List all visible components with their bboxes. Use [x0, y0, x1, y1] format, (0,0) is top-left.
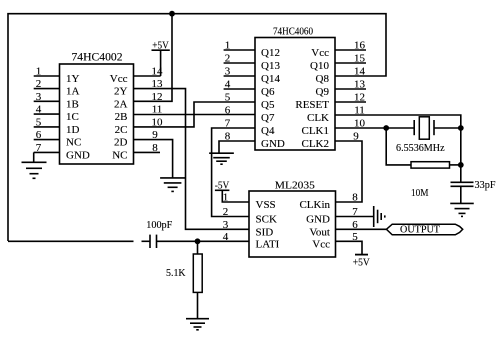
node OUTPUT port flag: [386, 224, 462, 235]
wire GND pin7 U3 to sideways ground: [336, 216, 374, 218]
svg-text:Vcc: Vcc: [312, 238, 330, 250]
svg-text:100pF: 100pF: [146, 219, 172, 231]
wire right vertical to 33pF: [460, 128, 462, 182]
svg-text:Q14: Q14: [261, 73, 280, 85]
wire NC pin8 stub U1: [134, 151, 161, 153]
resistor R1 10M: [411, 162, 450, 168]
svg-text:1A: 1A: [66, 86, 80, 98]
label 5.1K: [166, 267, 186, 279]
IC U3 ML2035 body and pin names: [249, 179, 336, 257]
svg-text:LATI: LATI: [256, 238, 280, 250]
wire CLK2 pin9 down to CLKin pin8: [335, 141, 362, 202]
svg-text:74HC4002: 74HC4002: [72, 50, 123, 64]
svg-text:ML2035: ML2035: [275, 179, 316, 191]
svg-text:3: 3: [225, 66, 231, 78]
svg-text:Q8: Q8: [316, 73, 330, 85]
svg-text:GND: GND: [306, 214, 330, 226]
svg-text:CLK: CLK: [307, 112, 329, 124]
wire 2D pin9 to ground: [134, 140, 173, 178]
svg-text:Vout: Vout: [309, 226, 330, 238]
svg-text:Q5: Q5: [261, 99, 275, 111]
node junction LATI and 5.1K: [195, 238, 201, 244]
svg-text:CLK1: CLK1: [302, 125, 330, 137]
svg-text:NC: NC: [66, 137, 81, 149]
svg-text:SCK: SCK: [256, 214, 277, 226]
wire 10M left leg: [386, 128, 411, 165]
svg-text:5.1K: 5.1K: [166, 267, 186, 279]
wire 2Y pin13 down to SID pin3: [134, 89, 250, 230]
svg-text:33pF: 33pF: [475, 179, 496, 191]
U2 left pin numbers 1-8: [225, 40, 231, 143]
wire 100pF right to LATI pin4: [157, 240, 250, 242]
svg-text:RESET: RESET: [295, 99, 329, 111]
label 33pF: [475, 179, 496, 191]
svg-text:1C: 1C: [66, 111, 79, 123]
power -5V supply at VSS: [215, 179, 249, 202]
svg-text:CLK2: CLK2: [302, 138, 330, 150]
wire U2 GND pin8 to ground: [219, 141, 255, 153]
svg-text:Q4: Q4: [261, 125, 275, 137]
wire CLK1 pin10 to crystal left: [335, 127, 414, 129]
svg-text:2C: 2C: [115, 124, 128, 136]
U2 right pin numbers 16-9: [353, 40, 365, 143]
ground below U1 pin7: [22, 162, 47, 178]
ground below 33pF: [450, 203, 474, 216]
U1 left pin numbers 1-7: [36, 66, 42, 154]
U2 left pin stubs pins 1-4: [224, 50, 255, 89]
svg-text:+5V: +5V: [353, 256, 370, 268]
svg-text:1: 1: [225, 40, 231, 52]
capacitor C1 100pF: [150, 235, 157, 248]
svg-text:10M: 10M: [411, 187, 429, 199]
node junction top rail to 2A: [169, 11, 175, 17]
wire junction down to 5.1K: [197, 241, 199, 254]
svg-text:3: 3: [36, 91, 42, 103]
svg-text:Q10: Q10: [310, 60, 329, 72]
U1 left pin stubs pins 1-7: [34, 76, 60, 152]
svg-text:74HC4060: 74HC4060: [273, 25, 313, 37]
capacitor C2 33pF: [451, 182, 474, 186]
svg-text:Q9: Q9: [316, 86, 330, 98]
ground sideways at U3 pin7: [374, 206, 385, 227]
node junction 10M right: [458, 162, 464, 168]
svg-text:1Y: 1Y: [66, 73, 80, 85]
wire 10M right leg: [450, 164, 461, 166]
wire U1 GND pin7 to ground: [33, 152, 35, 162]
wire CLK pin11 right and down to crystal: [335, 115, 461, 128]
U3 left pin numbers 1-4: [223, 192, 229, 243]
ground below 5.1K: [186, 319, 209, 330]
svg-text:4: 4: [225, 79, 231, 91]
U3 right pin numbers 8-5: [352, 192, 358, 243]
label 100pF: [146, 219, 172, 231]
svg-text:5: 5: [36, 116, 42, 128]
svg-text:2Y: 2Y: [114, 86, 128, 98]
node junction crystal right: [458, 125, 464, 131]
IC U2 74HC4060 body and pin names: [255, 25, 335, 150]
svg-text:7: 7: [36, 142, 42, 154]
resistor R2 5.1K: [193, 254, 202, 292]
wire Q4 pin7 down to SCK pin2: [212, 128, 255, 217]
svg-text:6.5536MHz: 6.5536MHz: [396, 142, 445, 154]
svg-text:2: 2: [225, 53, 231, 65]
wire 5.1K to ground: [197, 292, 199, 318]
svg-text:6: 6: [36, 129, 42, 141]
wire 2B pin11 to Q7 pin6: [134, 114, 256, 116]
ground below 2D wire: [160, 178, 185, 192]
svg-text:Q6: Q6: [261, 86, 275, 98]
node junction CLK1 and 10M left leg: [383, 125, 389, 131]
svg-text:1D: 1D: [66, 124, 80, 136]
wire 2C pin10 up to Q5 pin5: [134, 102, 256, 127]
svg-text:OUTPUT: OUTPUT: [400, 225, 440, 236]
svg-text:SID: SID: [256, 226, 274, 238]
power +5V supply bottom: [353, 255, 370, 269]
wire top rail from 100pF node up across to Q8 pin14: [8, 14, 386, 241]
svg-text:Vcc: Vcc: [311, 47, 329, 59]
U2 right pin stubs 16 15 13 12: [335, 50, 366, 102]
svg-text:2B: 2B: [115, 111, 128, 123]
label 6.5536MHz: [396, 142, 445, 154]
svg-text:2: 2: [36, 78, 42, 90]
svg-text:+5V: +5V: [152, 39, 169, 51]
wire Vout pin6 to output flag: [336, 228, 387, 230]
svg-text:1B: 1B: [66, 98, 79, 110]
power +5V supply top: [134, 39, 170, 76]
wire 33pF to ground: [460, 186, 462, 203]
wire Vcc pin5 down to +5V: [336, 241, 363, 254]
svg-text:Q12: Q12: [261, 47, 280, 59]
svg-text:NC: NC: [112, 149, 127, 161]
crystal Y1 6.5536MHz: [414, 117, 434, 139]
ground below U2 pin8: [209, 153, 234, 164]
U1 right pin numbers 14-8: [152, 66, 164, 154]
svg-text:2D: 2D: [114, 137, 128, 149]
wire 100pF left from top rail: [8, 240, 150, 242]
svg-text:2A: 2A: [114, 98, 128, 110]
svg-text:4: 4: [36, 104, 42, 116]
svg-text:-5V: -5V: [215, 179, 230, 191]
svg-text:GND: GND: [66, 149, 90, 161]
IC U1 74HC4002 body and pin names: [60, 50, 134, 165]
svg-text:GND: GND: [261, 138, 285, 150]
svg-text:CLKin: CLKin: [299, 199, 330, 211]
svg-text:Q7: Q7: [261, 112, 275, 124]
label 10M: [411, 187, 429, 199]
svg-text:1: 1: [36, 66, 42, 78]
svg-text:VSS: VSS: [256, 199, 276, 211]
svg-text:Q13: Q13: [261, 60, 280, 72]
wire crystal right to vertical: [434, 127, 461, 129]
svg-text:Vcc: Vcc: [110, 73, 128, 85]
wire 2A pin12 up to top rail: [134, 14, 173, 102]
